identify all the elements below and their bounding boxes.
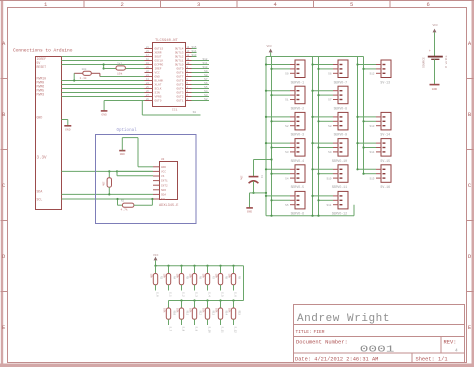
svg-text:SERVO-6: SERVO-6 bbox=[291, 212, 304, 216]
svg-text:SIN: SIN bbox=[155, 92, 160, 95]
svg-text:OUT15: OUT15 bbox=[155, 48, 164, 51]
svg-text:R13: R13 bbox=[212, 311, 215, 316]
svg-text:GND: GND bbox=[432, 88, 438, 91]
svg-text:S11: S11 bbox=[202, 62, 207, 65]
svg-text:SERVO-1: SERVO-1 bbox=[291, 80, 304, 84]
svg-text:SDA: SDA bbox=[161, 194, 166, 197]
svg-text:S3: S3 bbox=[204, 94, 208, 97]
svg-text:S13: S13 bbox=[191, 54, 196, 57]
svg-text:R6: R6 bbox=[199, 276, 202, 280]
svg-text:R15: R15 bbox=[238, 311, 241, 316]
svg-text:10k: 10k bbox=[149, 273, 152, 278]
svg-text:SDO: SDO bbox=[161, 189, 166, 192]
svg-text:S6: S6 bbox=[204, 82, 208, 85]
svg-text:R5: R5 bbox=[186, 276, 189, 280]
svg-text:XERR: XERR bbox=[155, 52, 162, 55]
svg-text:SERVO-9: SERVO-9 bbox=[334, 133, 347, 137]
svg-text:SOUT: SOUT bbox=[155, 56, 162, 59]
svg-text:GND: GND bbox=[155, 76, 160, 79]
svg-text:S2: S2 bbox=[285, 125, 289, 128]
svg-text:Andrew Wright: Andrew Wright bbox=[297, 313, 390, 325]
svg-text:SERVO-12: SERVO-12 bbox=[332, 212, 347, 216]
svg-text:S_3: S_3 bbox=[195, 292, 198, 297]
svg-text:S0: S0 bbox=[285, 73, 289, 76]
svg-text:10k: 10k bbox=[188, 308, 191, 313]
svg-text:SV-15: SV-15 bbox=[380, 159, 390, 163]
svg-text:OUT1: OUT1 bbox=[177, 100, 184, 103]
svg-text:OUT6: OUT6 bbox=[177, 80, 184, 83]
svg-text:R14: R14 bbox=[225, 311, 228, 316]
svg-text:SCL: SCL bbox=[161, 198, 166, 201]
svg-text:OUT9: OUT9 bbox=[177, 68, 184, 71]
svg-text:S9: S9 bbox=[328, 151, 332, 154]
svg-text:S10: S10 bbox=[326, 177, 331, 180]
svg-text:SDA: SDA bbox=[37, 190, 43, 194]
svg-text:9 volts: 9 volts bbox=[444, 55, 448, 68]
svg-text:R8: R8 bbox=[225, 276, 228, 280]
svg-text:S6: S6 bbox=[328, 73, 332, 76]
svg-text:VCC: VCC bbox=[153, 254, 159, 257]
svg-text:OUT0: OUT0 bbox=[155, 100, 162, 103]
svg-text:1.1k: 1.1k bbox=[80, 76, 87, 80]
svg-text:GND: GND bbox=[37, 115, 43, 119]
svg-text:S7: S7 bbox=[328, 99, 332, 102]
svg-text:S4: S4 bbox=[204, 90, 208, 93]
svg-text:R10: R10 bbox=[173, 311, 176, 316]
svg-text:3.3V: 3.3V bbox=[37, 157, 48, 161]
svg-text:SCLK: SCLK bbox=[155, 88, 162, 91]
svg-text:10k: 10k bbox=[162, 273, 165, 278]
svg-text:Connections to Arduino: Connections to Arduino bbox=[13, 48, 73, 54]
svg-text:IREF: IREF bbox=[155, 68, 162, 71]
svg-text:OUT14: OUT14 bbox=[175, 48, 184, 51]
svg-text:Optional: Optional bbox=[117, 128, 138, 133]
svg-text:S_7: S_7 bbox=[169, 327, 172, 332]
svg-text:OUT12: OUT12 bbox=[175, 56, 184, 59]
svg-text:S_12: S_12 bbox=[234, 327, 237, 334]
svg-text:S_11: S_11 bbox=[221, 327, 224, 334]
svg-text:SV-14: SV-14 bbox=[380, 133, 390, 137]
svg-text:S12: S12 bbox=[369, 73, 374, 76]
svg-text:BLANK: BLANK bbox=[155, 80, 164, 83]
svg-text:INT2: INT2 bbox=[161, 184, 168, 187]
svg-text:2: 2 bbox=[121, 1, 124, 8]
svg-text:U3: U3 bbox=[161, 158, 165, 161]
svg-text:C1: C1 bbox=[260, 175, 263, 179]
svg-text:SV-13: SV-13 bbox=[380, 80, 390, 84]
svg-text:S12: S12 bbox=[202, 58, 207, 61]
svg-text:VCC: VCC bbox=[433, 24, 439, 27]
svg-text:+: + bbox=[429, 50, 431, 54]
svg-text:5: 5 bbox=[350, 1, 353, 8]
svg-text:Sheet: 1/1: Sheet: 1/1 bbox=[416, 356, 448, 362]
svg-text:S_5: S_5 bbox=[221, 292, 224, 297]
svg-text:Date: 4/21/2012 2:46:31 AM: Date: 4/21/2012 2:46:31 AM bbox=[295, 356, 378, 362]
svg-text:S13: S13 bbox=[369, 125, 374, 128]
svg-text:10k: 10k bbox=[102, 181, 106, 186]
svg-text:SERVO-7: SERVO-7 bbox=[334, 80, 347, 84]
svg-text:10k: 10k bbox=[214, 308, 217, 313]
svg-text:VCC: VCC bbox=[155, 72, 160, 75]
svg-text:10k: 10k bbox=[117, 71, 123, 75]
svg-text:OUT2: OUT2 bbox=[177, 96, 184, 99]
svg-text:10k: 10k bbox=[227, 273, 230, 278]
svg-text:XLAT: XLAT bbox=[155, 84, 162, 87]
svg-text:S_0: S_0 bbox=[156, 292, 159, 297]
svg-text:SOURCE: SOURCE bbox=[423, 57, 426, 68]
svg-text:Document Number:: Document Number: bbox=[296, 340, 348, 346]
svg-text:10k: 10k bbox=[227, 308, 230, 313]
svg-text:S5: S5 bbox=[204, 86, 208, 89]
svg-text:OUT10: OUT10 bbox=[175, 64, 184, 67]
svg-text:PWM3: PWM3 bbox=[37, 93, 45, 97]
svg-text:S8: S8 bbox=[328, 125, 332, 128]
svg-text:OUT5: OUT5 bbox=[177, 84, 184, 87]
svg-text:10k: 10k bbox=[175, 273, 178, 278]
svg-text:S_6: S_6 bbox=[234, 292, 237, 297]
svg-text:REV:: REV: bbox=[444, 340, 457, 346]
svg-text:S_10: S_10 bbox=[208, 327, 211, 334]
svg-text:R12: R12 bbox=[199, 311, 202, 316]
svg-text:OUT11: OUT11 bbox=[175, 60, 184, 63]
svg-text:2k2: 2k2 bbox=[117, 61, 122, 65]
svg-text:SERVO-10: SERVO-10 bbox=[332, 159, 347, 163]
svg-text:GND: GND bbox=[120, 153, 125, 156]
svg-text:VPRG: VPRG bbox=[155, 96, 162, 99]
svg-text:10k: 10k bbox=[201, 273, 204, 278]
svg-text:S_8: S_8 bbox=[182, 327, 185, 332]
svg-text:ADXL345-E: ADXL345-E bbox=[159, 204, 178, 208]
svg-text:S4: S4 bbox=[285, 177, 289, 180]
svg-text:10k: 10k bbox=[162, 308, 165, 313]
svg-text:GND: GND bbox=[101, 114, 107, 117]
svg-text:FIER: FIER bbox=[314, 329, 325, 335]
svg-text:4.7k: 4.7k bbox=[121, 208, 128, 212]
svg-text:3: 3 bbox=[197, 1, 200, 8]
svg-text:GND: GND bbox=[247, 211, 252, 214]
svg-text:S11: S11 bbox=[326, 204, 331, 207]
svg-text:S15: S15 bbox=[191, 46, 196, 49]
svg-text:S5: S5 bbox=[285, 204, 289, 207]
svg-text:R11: R11 bbox=[186, 311, 189, 316]
svg-text:CS: CS bbox=[161, 175, 165, 178]
svg-text:SERVO-2: SERVO-2 bbox=[291, 107, 304, 111]
svg-text:RESET: RESET bbox=[37, 65, 47, 69]
svg-text:0001: 0001 bbox=[360, 344, 395, 354]
svg-text:OUT8: OUT8 bbox=[177, 72, 184, 75]
svg-text:10k: 10k bbox=[175, 308, 178, 313]
svg-text:S_1: S_1 bbox=[169, 292, 172, 297]
svg-text:OUT13: OUT13 bbox=[175, 52, 184, 55]
svg-text:R2: R2 bbox=[121, 200, 125, 203]
svg-text:S8: S8 bbox=[204, 74, 208, 77]
svg-text:10k: 10k bbox=[82, 67, 87, 71]
svg-text:10u: 10u bbox=[240, 175, 243, 180]
svg-text:S3: S3 bbox=[285, 151, 289, 154]
svg-text:6: 6 bbox=[427, 1, 430, 8]
svg-text:SV-16: SV-16 bbox=[380, 185, 390, 189]
svg-text:R7: R7 bbox=[212, 276, 215, 280]
svg-text:S14: S14 bbox=[369, 151, 374, 154]
svg-text:S9: S9 bbox=[204, 70, 208, 73]
svg-text:SERVO-11: SERVO-11 bbox=[332, 185, 347, 189]
svg-text:4: 4 bbox=[455, 348, 458, 354]
svg-text:INT1: INT1 bbox=[161, 180, 168, 183]
svg-text:10k: 10k bbox=[188, 273, 191, 278]
svg-text:GSCLK: GSCLK bbox=[155, 60, 164, 63]
svg-text:S0: S0 bbox=[193, 111, 197, 114]
svg-text:SERVO-4: SERVO-4 bbox=[291, 159, 304, 163]
svg-text:S_4: S_4 bbox=[208, 292, 211, 297]
svg-text:S10: S10 bbox=[202, 66, 207, 69]
svg-text:S2: S2 bbox=[204, 98, 208, 101]
svg-text:S15: S15 bbox=[369, 177, 374, 180]
svg-text:R9: R9 bbox=[238, 276, 241, 280]
svg-text:GND: GND bbox=[161, 166, 166, 169]
svg-text:DCPRG: DCPRG bbox=[155, 64, 164, 67]
svg-text:GND: GND bbox=[65, 129, 71, 132]
svg-text:VCC: VCC bbox=[267, 45, 273, 48]
svg-text:10k: 10k bbox=[201, 308, 204, 313]
svg-text:SERVO-8: SERVO-8 bbox=[334, 107, 347, 111]
svg-text:S_9: S_9 bbox=[195, 327, 198, 332]
svg-text:OUT7: OUT7 bbox=[177, 76, 184, 79]
svg-text:R3: R3 bbox=[160, 276, 163, 280]
svg-text:OUT3: OUT3 bbox=[177, 92, 184, 95]
svg-text:IC1: IC1 bbox=[172, 109, 178, 112]
svg-text:OUT4: OUT4 bbox=[177, 88, 184, 91]
svg-text:10k: 10k bbox=[214, 273, 217, 278]
svg-text:VCC: VCC bbox=[161, 171, 166, 174]
svg-text:S7: S7 bbox=[204, 78, 208, 81]
svg-text:S1: S1 bbox=[285, 99, 289, 102]
svg-text:S_2: S_2 bbox=[182, 292, 185, 297]
svg-text:TITLE:: TITLE: bbox=[296, 329, 312, 335]
svg-text:R4: R4 bbox=[173, 276, 176, 280]
svg-text:SCL: SCL bbox=[37, 198, 43, 202]
svg-text:SERVO-3: SERVO-3 bbox=[291, 133, 304, 137]
svg-text:S14: S14 bbox=[191, 50, 196, 53]
svg-text:SERVO-5: SERVO-5 bbox=[291, 185, 304, 189]
